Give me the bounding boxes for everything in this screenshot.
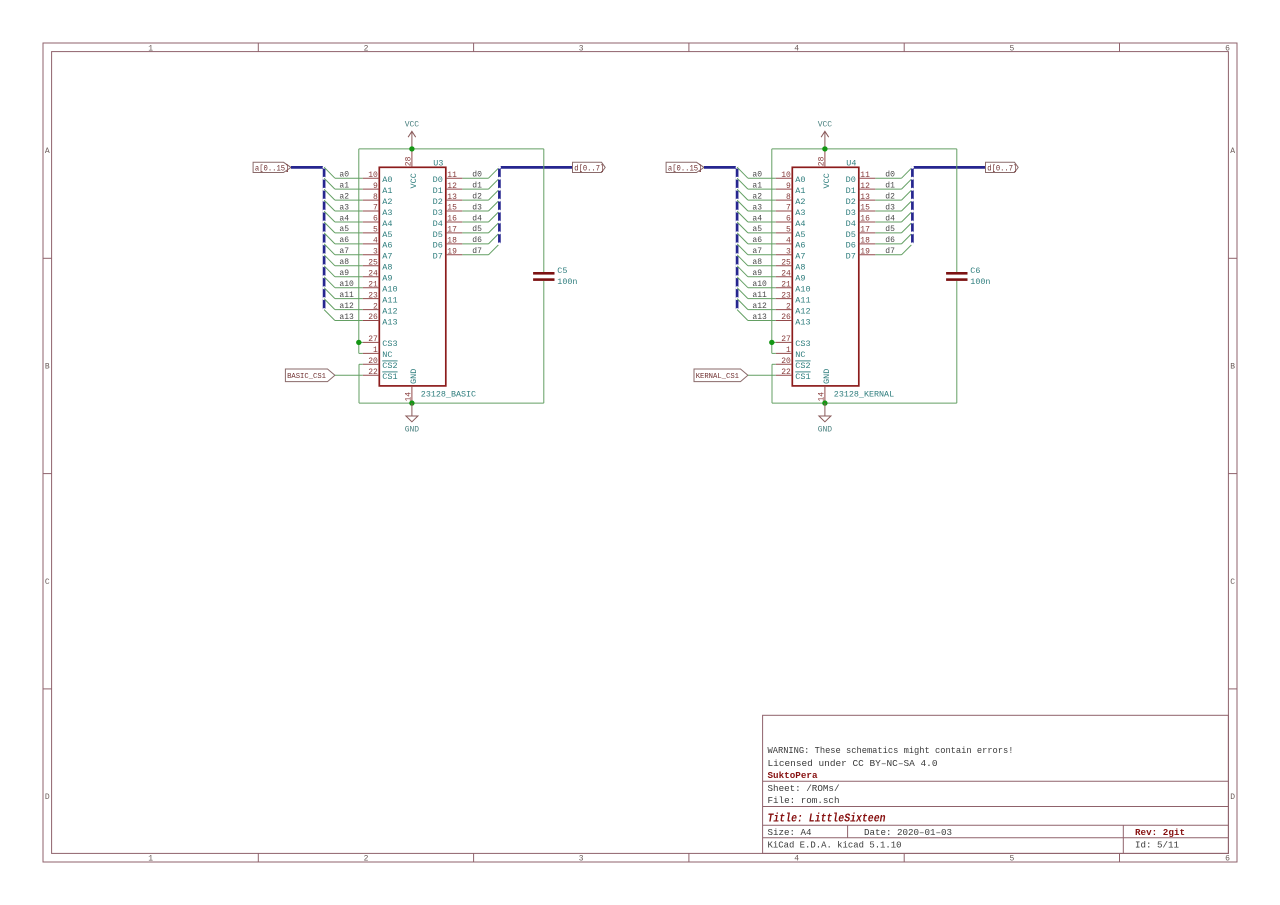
bus d[0..7] vertical segment <box>911 166 914 244</box>
svg-text:SuktoPera: SuktoPera <box>768 770 818 781</box>
svg-text:a13: a13 <box>752 313 767 322</box>
svg-text:2: 2 <box>786 302 791 311</box>
svg-text:5: 5 <box>373 226 378 235</box>
U4 pin 24 A9 <box>776 269 806 283</box>
U4 pin 9 A1 <box>776 182 806 196</box>
bus entry d6 <box>489 233 500 244</box>
wire a10 <box>335 287 363 289</box>
svg-text:Size: A4: Size: A4 <box>768 827 812 838</box>
svg-text:A13: A13 <box>382 317 397 327</box>
svg-text:a12: a12 <box>339 302 354 311</box>
svg-text:3: 3 <box>786 248 791 257</box>
svg-text:100n: 100n <box>970 277 990 287</box>
wire NC to rail <box>359 352 363 354</box>
wire CS3/NC rail vertical <box>358 149 360 354</box>
svg-text:D: D <box>45 793 50 802</box>
U4 pin 13 D2 <box>846 193 876 207</box>
wire a1 <box>335 188 363 190</box>
svg-text:A7: A7 <box>795 252 805 262</box>
wire a12 <box>748 309 776 311</box>
svg-text:A6: A6 <box>795 241 805 251</box>
wire a13 <box>335 320 363 322</box>
wire BASIC_CS1 to CS1 <box>335 374 363 376</box>
svg-text:28: 28 <box>404 156 413 166</box>
svg-text:D: D <box>1230 793 1235 802</box>
svg-text:VCC: VCC <box>822 173 832 188</box>
U3 pin 23 A11 <box>363 291 398 305</box>
U4 pin 15 D3 <box>846 204 876 218</box>
U4 pin 14 GND (bottom) <box>817 369 831 403</box>
bus entry attach gaps (left bus) <box>736 166 739 311</box>
svg-text:6: 6 <box>1225 44 1230 53</box>
wire a11 <box>335 298 363 300</box>
svg-text:18: 18 <box>860 237 870 246</box>
wire right rail (VCC to C5) <box>543 149 545 272</box>
wire a2 <box>748 199 776 201</box>
hierarchical label BASIC_CS1 <box>285 369 335 382</box>
bus entry a6 <box>737 233 748 244</box>
svg-text:U4: U4 <box>846 159 856 169</box>
svg-text:D5: D5 <box>433 230 443 240</box>
bus entry a7 <box>324 244 335 255</box>
svg-text:19: 19 <box>860 248 870 257</box>
bus a[0..15] vertical segment <box>323 166 326 310</box>
svg-text:d4: d4 <box>472 214 482 223</box>
U3 pin 7 A3 <box>363 204 393 218</box>
svg-text:13: 13 <box>860 193 870 202</box>
svg-text:a5: a5 <box>752 225 762 234</box>
svg-text:d3: d3 <box>472 203 482 212</box>
U3 pin 22 CS1 <box>363 368 398 382</box>
svg-text:24: 24 <box>368 269 378 278</box>
svg-text:a0: a0 <box>339 171 349 180</box>
svg-text:27: 27 <box>781 335 791 344</box>
U3 pin 28 VCC (top) <box>404 149 418 189</box>
junction CS3 <box>769 340 774 345</box>
wire d2 <box>875 199 901 201</box>
svg-text:13: 13 <box>447 193 457 202</box>
svg-text:20: 20 <box>781 357 791 366</box>
svg-text:a4: a4 <box>752 214 762 223</box>
U3 pin 10 A0 <box>363 171 393 185</box>
wire d2 <box>462 199 488 201</box>
svg-text:a8: a8 <box>752 258 762 267</box>
svg-text:GND: GND <box>409 369 419 384</box>
svg-text:100n: 100n <box>557 277 577 287</box>
svg-text:CS2: CS2 <box>382 361 397 371</box>
svg-text:6: 6 <box>786 215 791 224</box>
svg-text:15: 15 <box>447 204 457 213</box>
svg-text:9: 9 <box>786 182 791 191</box>
svg-text:28: 28 <box>817 156 826 166</box>
svg-text:A3: A3 <box>795 208 805 218</box>
U3 pin 24 A9 <box>363 269 393 283</box>
bus entry a13 <box>324 310 335 321</box>
U3 pin 19 D7 <box>433 248 463 262</box>
svg-text:A10: A10 <box>382 285 397 295</box>
svg-text:D6: D6 <box>846 241 856 251</box>
wire a9 <box>335 276 363 278</box>
svg-text:A9: A9 <box>382 274 392 284</box>
svg-text:a10: a10 <box>339 280 354 289</box>
svg-text:D6: D6 <box>433 241 443 251</box>
svg-text:A0: A0 <box>795 175 805 185</box>
U4 pin 25 A8 <box>776 259 806 273</box>
ROM chip U4 23128_KERNAL body <box>792 167 859 386</box>
bus entry a3 <box>324 200 335 211</box>
bus entry a4 <box>324 211 335 222</box>
capacitor C6 100n <box>946 266 990 287</box>
bus entry a1 <box>324 178 335 189</box>
svg-text:A7: A7 <box>382 252 392 262</box>
U3 pin 20 CS2 <box>363 357 398 371</box>
svg-text:VCC: VCC <box>409 173 419 188</box>
U3 pin 2 A12 <box>363 302 398 316</box>
wire CS2 to GND rail <box>772 363 776 365</box>
U4 pin 19 D7 <box>846 248 876 262</box>
bus entry d5 <box>489 222 500 233</box>
hierarchical label d[0..7] (U4 side) <box>986 162 1019 173</box>
junction CS3 <box>356 340 361 345</box>
wire CS2 to GND rail <box>359 363 363 365</box>
svg-text:a8: a8 <box>339 258 349 267</box>
svg-text:d7: d7 <box>472 247 482 256</box>
wire right rail (VCC to C6) <box>956 149 958 272</box>
svg-text:A11: A11 <box>382 295 397 305</box>
svg-text:A0: A0 <box>382 175 392 185</box>
power symbol VCC (U3) <box>405 121 420 149</box>
svg-text:A5: A5 <box>795 230 805 240</box>
wire d6 <box>462 243 488 245</box>
U3 pin 4 A6 <box>363 237 393 251</box>
wire a8 <box>748 265 776 267</box>
svg-text:4: 4 <box>373 237 378 246</box>
U3 pin 11 D0 <box>433 171 463 185</box>
svg-text:1: 1 <box>148 44 153 53</box>
svg-text:A8: A8 <box>382 263 392 273</box>
wire a1 <box>748 188 776 190</box>
U3 pin 13 D2 <box>433 193 463 207</box>
svg-text:4: 4 <box>794 44 799 53</box>
svg-text:a6: a6 <box>339 236 349 245</box>
wire d4 <box>462 221 488 223</box>
svg-text:C: C <box>45 578 50 587</box>
U3 pin 25 A8 <box>363 259 393 273</box>
svg-text:22: 22 <box>781 368 791 377</box>
bus entry a5 <box>324 222 335 233</box>
wire d6 <box>875 243 901 245</box>
bus entry attach gaps (right bus) <box>498 166 501 246</box>
svg-text:3: 3 <box>373 248 378 257</box>
junction VCC at pin 28 <box>822 146 827 151</box>
svg-text:4: 4 <box>794 854 799 863</box>
svg-text:11: 11 <box>447 171 457 180</box>
svg-text:KERNAL_CS1: KERNAL_CS1 <box>696 373 740 381</box>
svg-text:8: 8 <box>373 193 378 202</box>
U4 pin 10 A0 <box>776 171 806 185</box>
bus d[0..7] vertical segment <box>498 166 501 244</box>
wire a11 <box>748 298 776 300</box>
svg-text:A: A <box>1230 147 1235 156</box>
svg-text:23: 23 <box>368 291 378 300</box>
bus entry a9 <box>737 266 748 277</box>
svg-text:3: 3 <box>579 44 584 53</box>
bus entry d2 <box>489 189 500 200</box>
wire a3 <box>748 210 776 212</box>
wire d7 <box>875 254 901 256</box>
U4 pin 26 A13 <box>776 313 811 327</box>
wire d1 <box>875 188 901 190</box>
U4 pin 28 VCC (top) <box>817 149 831 189</box>
wire a0 <box>335 177 363 179</box>
svg-text:D5: D5 <box>846 230 856 240</box>
wire CS3/NC rail vertical <box>771 149 773 354</box>
bus entry a10 <box>324 277 335 288</box>
bus entry a0 <box>737 167 748 178</box>
svg-text:a11: a11 <box>339 291 354 300</box>
bus entry d6 <box>902 233 913 244</box>
svg-text:a2: a2 <box>752 192 762 201</box>
wire d5 <box>875 232 901 234</box>
U4 pin 21 A10 <box>776 280 811 294</box>
bus entry a4 <box>737 211 748 222</box>
svg-text:D1: D1 <box>846 186 856 196</box>
U3 pin 5 A5 <box>363 226 393 240</box>
wire a3 <box>335 210 363 212</box>
bus entry a2 <box>324 189 335 200</box>
svg-text:d1: d1 <box>472 181 482 190</box>
svg-text:2: 2 <box>364 44 369 53</box>
svg-text:3: 3 <box>579 854 584 863</box>
svg-text:a[0..15]: a[0..15] <box>668 165 703 173</box>
bus entry a1 <box>737 178 748 189</box>
svg-text:A1: A1 <box>382 186 392 196</box>
wire d0 <box>462 177 488 179</box>
bus a[0..15] vertical segment <box>736 166 739 310</box>
wire VCC rail horizontal <box>359 148 544 150</box>
U4 pin 23 A11 <box>776 291 811 305</box>
svg-text:D0: D0 <box>433 175 443 185</box>
bus entry d3 <box>489 200 500 211</box>
svg-text:12: 12 <box>860 182 870 191</box>
svg-text:12: 12 <box>447 182 457 191</box>
svg-text:6: 6 <box>1225 854 1230 863</box>
bus d[0..7] horizontal segment <box>912 166 985 169</box>
U3 pin 17 D5 <box>433 226 463 240</box>
U4 pin 22 CS1 <box>776 368 811 382</box>
svg-text:D0: D0 <box>846 175 856 185</box>
wire a7 <box>748 254 776 256</box>
svg-text:A: A <box>45 147 50 156</box>
svg-text:26: 26 <box>368 313 378 322</box>
bus a[0..15] horizontal segment <box>704 166 737 169</box>
bus entry d0 <box>902 167 913 178</box>
svg-text:D4: D4 <box>846 219 856 229</box>
wire a2 <box>335 199 363 201</box>
U3 pin 18 D6 <box>433 237 463 251</box>
svg-text:d[0..7]: d[0..7] <box>987 165 1017 173</box>
svg-text:27: 27 <box>368 335 378 344</box>
wire right rail (C5 to GND) <box>543 281 545 403</box>
svg-text:23: 23 <box>781 291 791 300</box>
svg-text:a[0..15]: a[0..15] <box>255 165 290 173</box>
svg-text:A3: A3 <box>382 208 392 218</box>
svg-text:Licensed under CC BY–NC–SA 4.0: Licensed under CC BY–NC–SA 4.0 <box>768 758 938 769</box>
bus a[0..15] horizontal segment <box>291 166 324 169</box>
svg-text:a6: a6 <box>752 236 762 245</box>
wire a5 <box>335 232 363 234</box>
svg-text:21: 21 <box>368 280 378 289</box>
svg-text:d2: d2 <box>472 192 482 201</box>
svg-text:4: 4 <box>786 237 791 246</box>
wire a6 <box>748 243 776 245</box>
svg-text:21: 21 <box>781 280 791 289</box>
svg-text:a9: a9 <box>752 269 762 278</box>
wire a0 <box>748 177 776 179</box>
bus entry d7 <box>489 244 500 255</box>
svg-text:A12: A12 <box>382 306 397 316</box>
svg-text:CS3: CS3 <box>795 339 810 349</box>
svg-text:5: 5 <box>786 226 791 235</box>
svg-text:5: 5 <box>1009 854 1014 863</box>
svg-text:D2: D2 <box>433 197 443 207</box>
wire a8 <box>335 265 363 267</box>
junction GND at pin 14 <box>822 400 827 405</box>
svg-text:23128_BASIC: 23128_BASIC <box>421 390 476 400</box>
svg-text:d0: d0 <box>472 171 482 180</box>
power symbol GND (U4) <box>818 403 833 434</box>
svg-text:a7: a7 <box>752 247 762 256</box>
svg-text:D7: D7 <box>846 252 856 262</box>
svg-text:22: 22 <box>368 368 378 377</box>
svg-text:24: 24 <box>781 269 791 278</box>
bus entry d4 <box>489 211 500 222</box>
svg-text:VCC: VCC <box>405 121 420 130</box>
svg-text:a1: a1 <box>339 181 349 190</box>
svg-text:d0: d0 <box>885 171 895 180</box>
svg-text:NC: NC <box>795 350 805 360</box>
wire right rail (C6 to GND) <box>956 281 958 403</box>
svg-text:U3: U3 <box>433 159 443 169</box>
wire a6 <box>335 243 363 245</box>
svg-text:19: 19 <box>447 248 457 257</box>
U3 pin 14 GND (bottom) <box>404 369 418 403</box>
wire a13 <box>748 320 776 322</box>
bus entry attach gaps (right bus) <box>911 166 914 246</box>
svg-text:a7: a7 <box>339 247 349 256</box>
U3 pin 15 D3 <box>433 204 463 218</box>
bus d[0..7] horizontal segment <box>499 166 572 169</box>
wire a9 <box>748 276 776 278</box>
svg-text:a4: a4 <box>339 214 349 223</box>
svg-text:25: 25 <box>781 259 791 268</box>
U4 pin 3 A7 <box>776 248 806 262</box>
svg-text:CS1: CS1 <box>795 372 810 382</box>
bus entry a13 <box>737 310 748 321</box>
svg-text:GND: GND <box>818 425 833 434</box>
U4 pin 8 A2 <box>776 193 806 207</box>
svg-text:A5: A5 <box>382 230 392 240</box>
svg-text:B: B <box>45 363 50 372</box>
wire d3 <box>462 210 488 212</box>
U4 pin 27 CS3 <box>776 335 811 349</box>
svg-text:VCC: VCC <box>818 121 833 130</box>
svg-text:CS3: CS3 <box>382 339 397 349</box>
svg-text:a0: a0 <box>752 171 762 180</box>
hierarchical label d[0..7] (U3 side) <box>573 162 606 173</box>
wire d0 <box>875 177 901 179</box>
svg-text:1: 1 <box>373 346 378 355</box>
svg-text:D1: D1 <box>433 186 443 196</box>
wire GND rail horizontal <box>772 402 957 404</box>
svg-text:d7: d7 <box>885 247 895 256</box>
svg-text:26: 26 <box>781 313 791 322</box>
svg-text:16: 16 <box>860 215 870 224</box>
capacitor C5 100n <box>533 266 577 287</box>
U3 pin 21 A10 <box>363 280 398 294</box>
svg-text:A4: A4 <box>795 219 805 229</box>
svg-text:Sheet: /ROMs/: Sheet: /ROMs/ <box>768 783 840 794</box>
svg-text:15: 15 <box>860 204 870 213</box>
svg-text:14: 14 <box>404 392 413 402</box>
svg-text:a13: a13 <box>339 313 354 322</box>
svg-text:2: 2 <box>364 854 369 863</box>
title block <box>763 715 1229 853</box>
svg-text:10: 10 <box>368 171 378 180</box>
U4 pin 2 A12 <box>776 302 811 316</box>
svg-text:18: 18 <box>447 237 457 246</box>
svg-text:11: 11 <box>860 171 870 180</box>
svg-text:d6: d6 <box>472 236 482 245</box>
U4 pin 11 D0 <box>846 171 876 185</box>
svg-text:A13: A13 <box>795 317 810 327</box>
svg-text:8: 8 <box>786 193 791 202</box>
U3 pin 3 A7 <box>363 248 393 262</box>
bus entry d1 <box>489 178 500 189</box>
svg-text:d5: d5 <box>885 225 895 234</box>
wire d1 <box>462 188 488 190</box>
svg-text:A4: A4 <box>382 219 392 229</box>
U4 pin 7 A3 <box>776 204 806 218</box>
svg-text:a11: a11 <box>752 291 767 300</box>
svg-text:A2: A2 <box>382 197 392 207</box>
wire d4 <box>875 221 901 223</box>
U3 pin 8 A2 <box>363 193 393 207</box>
svg-text:6: 6 <box>373 215 378 224</box>
junction GND at pin 14 <box>409 400 414 405</box>
wire CS3 to rail <box>359 341 363 343</box>
bus entry d2 <box>902 189 913 200</box>
svg-text:a9: a9 <box>339 269 349 278</box>
bus entry a2 <box>737 189 748 200</box>
wire a7 <box>335 254 363 256</box>
svg-text:A6: A6 <box>382 241 392 251</box>
U3 pin 9 A1 <box>363 182 393 196</box>
svg-text:d[0..7]: d[0..7] <box>574 165 604 173</box>
svg-text:d1: d1 <box>885 181 895 190</box>
power symbol VCC (U4) <box>818 121 833 149</box>
svg-text:17: 17 <box>860 226 870 235</box>
U4 pin 17 D5 <box>846 226 876 240</box>
wire a5 <box>748 232 776 234</box>
svg-text:25: 25 <box>368 259 378 268</box>
svg-text:A12: A12 <box>795 306 810 316</box>
svg-text:KiCad E.D.A. kicad 5.1.10: KiCad E.D.A. kicad 5.1.10 <box>768 840 902 851</box>
U3 pin 6 A4 <box>363 215 393 229</box>
U4 pin 6 A4 <box>776 215 806 229</box>
hierarchical label a[0..15] (U4 side) <box>666 162 704 173</box>
svg-text:A9: A9 <box>795 274 805 284</box>
